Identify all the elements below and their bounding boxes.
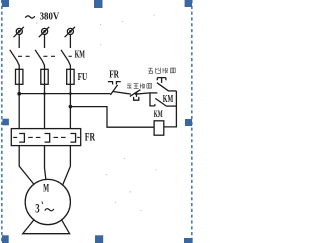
- label 起动按钮 (start button): [148, 68, 175, 74]
- thermal relay FR NC contact: [108, 82, 131, 95]
- wire coil return: [70, 107, 154, 128]
- wire phase L3 upper: [69, 34, 71, 48]
- wire L3 to motor: [63, 146, 71, 186]
- wire right rail: [164, 91, 177, 127]
- wire L2 to motor: [45, 146, 46, 180]
- svg-text:FR: FR: [109, 69, 119, 81]
- fuse FU3: [67, 69, 74, 84]
- junction node on L1: [17, 92, 21, 96]
- stop button NC contact: [130, 90, 150, 101]
- contactor KM main contact 2: [35, 50, 44, 66]
- label ~ 380V: [25, 16, 35, 18]
- wire phase L3 middle: [69, 65, 71, 129]
- fuse FU2: [41, 69, 48, 84]
- svg-text:380V: 380V: [40, 10, 60, 22]
- wire L1 to motor: [19, 146, 34, 185]
- svg-text:KM: KM: [163, 94, 173, 105]
- thermal relay FR heater box: [11, 129, 80, 146]
- contactor KM main contact 3: [61, 50, 70, 66]
- heater element 2: [45, 134, 50, 143]
- wire phase L2 middle: [44, 65, 46, 129]
- svg-text:3: 3: [35, 201, 40, 216]
- heater element 1: [19, 134, 24, 143]
- selection handle top-right: [185, 0, 192, 7]
- heater element 3: [70, 134, 75, 143]
- faint scan speckles: [36, 15, 157, 211]
- control bus wire from L1: [19, 93, 110, 95]
- contactor KM auxiliary contact: [155, 98, 176, 106]
- junction node L2 crossing: [43, 92, 46, 95]
- wire phase L2 upper: [44, 34, 46, 48]
- label 停止按钮 (stop button): [127, 83, 152, 88]
- supply terminal L2 (circle with slash): [39, 27, 49, 37]
- svg-text:KM: KM: [75, 48, 86, 60]
- selection handle bottom-right: [184, 238, 193, 243]
- motor mount base: [23, 220, 70, 234]
- selection handle top-middle: [94, 0, 103, 8]
- start button cap: [157, 78, 166, 83]
- wire phase L1 middle: [18, 65, 20, 129]
- selection border left (dashed blue): [1, 0, 3, 243]
- svg-text:KM: KM: [154, 110, 163, 120]
- selection handle bottom-middle: [95, 235, 103, 243]
- wire left rail: [150, 93, 155, 106]
- fuse FU1: [16, 69, 23, 84]
- selection handle bottom-left: [2, 235, 9, 243]
- fixed contact nub: [154, 104, 156, 106]
- tick mark in motor: [41, 201, 44, 204]
- dashed linkage line of KM main contacts: [18, 55, 72, 57]
- svg-text:FU: FU: [78, 72, 88, 83]
- contactor KM main contact 1: [10, 50, 19, 66]
- supply terminal L1 (circle with slash): [14, 27, 24, 37]
- contactor coil KM: [154, 121, 164, 135]
- selection handle right-middle: [185, 119, 192, 126]
- supply terminal L3 (circle with slash): [65, 27, 75, 37]
- junction node L3 crossing: [69, 92, 72, 95]
- junction node on L3: [69, 105, 73, 109]
- motor M: [25, 179, 70, 224]
- selection handle left-middle: [2, 119, 8, 126]
- label ~ (motor): [45, 209, 54, 211]
- selection border right (dashed blue): [191, 0, 193, 243]
- dashed linkage in FR box: [13, 136, 80, 138]
- svg-text:FR: FR: [85, 132, 96, 144]
- start button NO contact: [150, 83, 176, 93]
- svg-text:M: M: [43, 180, 49, 194]
- wire phase L1 upper: [18, 34, 20, 48]
- selection handle top-left: [2, 0, 9, 7]
